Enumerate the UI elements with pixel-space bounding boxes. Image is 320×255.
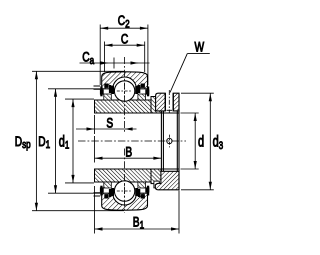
svg-text:d: d xyxy=(198,133,204,150)
svg-text:C: C xyxy=(121,31,129,47)
set screw slot xyxy=(165,93,173,111)
outer ring top (spherical OD, hatched) xyxy=(102,72,148,89)
inner ring top band xyxy=(95,100,162,113)
eccentric locking collar bottom section xyxy=(155,171,179,190)
seal right bottom xyxy=(135,182,149,199)
dimension d xyxy=(181,113,199,169)
inner ring bottom band xyxy=(95,169,162,182)
dimension C xyxy=(105,42,145,73)
seal right top xyxy=(135,84,149,101)
ball bottom xyxy=(114,181,134,201)
svg-text:S: S xyxy=(106,115,113,131)
set screw hole circle xyxy=(167,135,172,148)
shaft centerline xyxy=(78,140,186,142)
dimension d3 xyxy=(181,93,214,190)
ball top xyxy=(114,81,134,101)
dimension C2 xyxy=(100,25,148,86)
outer ring bottom (mirror) xyxy=(102,193,148,210)
svg-text:B: B xyxy=(125,144,132,160)
bore edges xyxy=(95,113,180,169)
dimension B xyxy=(95,136,162,163)
svg-text:W: W xyxy=(195,39,205,55)
svg-text:Ca: Ca xyxy=(82,49,94,67)
inner ring right extension bottom xyxy=(151,169,161,188)
eccentric locking collar top section xyxy=(156,90,179,113)
inner ring right extension top xyxy=(151,97,163,114)
ball vertical centerline bottom xyxy=(124,149,126,214)
svg-text:d1: d1 xyxy=(59,133,70,152)
label W with leader xyxy=(170,54,210,93)
dimension Ca xyxy=(80,58,150,69)
seal left top: flinger lip + disc + seal xyxy=(94,84,115,101)
dimension Dsp xyxy=(32,71,124,210)
collar faces at bore level xyxy=(161,93,179,190)
svg-text:Dsp: Dsp xyxy=(15,134,31,152)
svg-text:C2: C2 xyxy=(118,12,130,31)
dimension B1 xyxy=(95,186,180,234)
svg-text:B1: B1 xyxy=(133,214,144,232)
ball vertical centerline top xyxy=(124,57,126,134)
eccentric gap notch xyxy=(154,181,159,188)
dimension D1 xyxy=(48,89,102,193)
dimension S xyxy=(76,115,137,134)
dimension d1 xyxy=(65,99,94,183)
svg-text:d3: d3 xyxy=(213,133,224,152)
svg-text:D1: D1 xyxy=(38,134,50,152)
seal left bottom xyxy=(94,182,115,199)
